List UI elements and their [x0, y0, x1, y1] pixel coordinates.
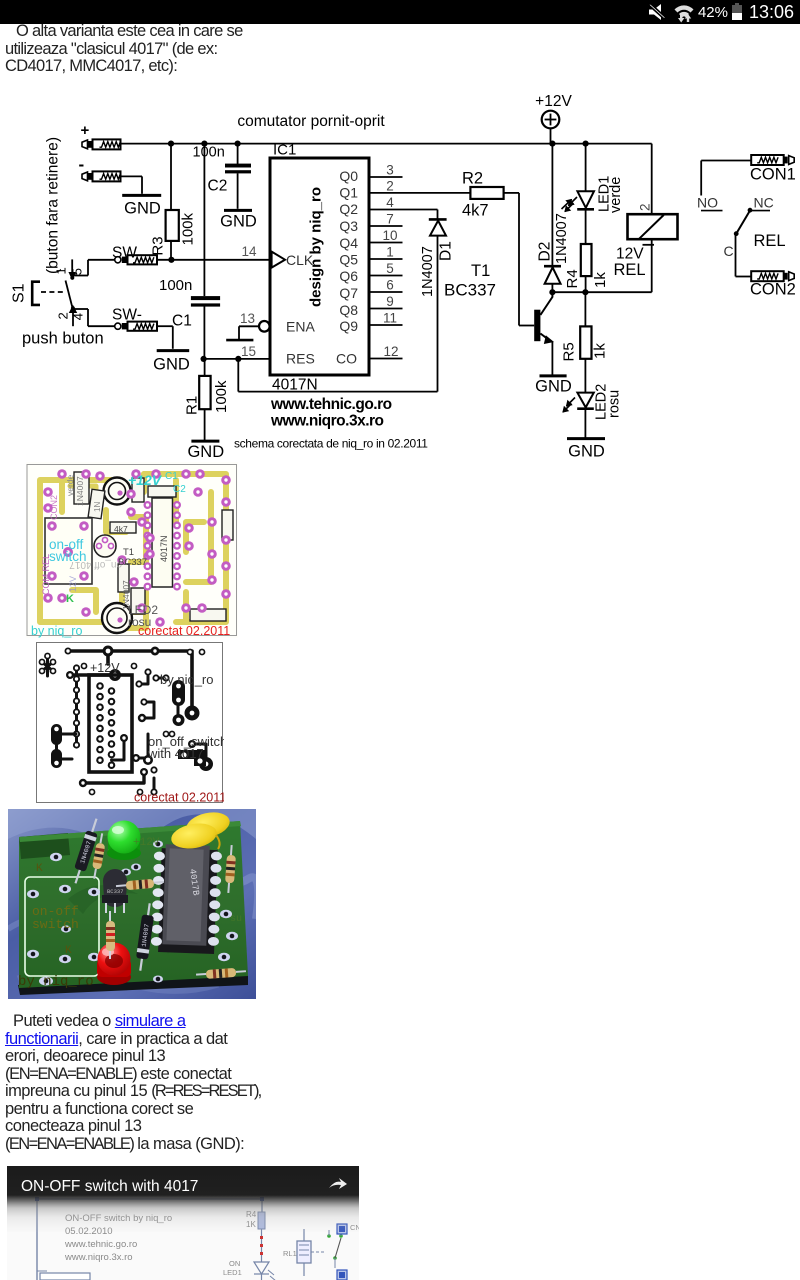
svg-text:100n: 100n	[159, 277, 192, 294]
svg-text:GND: GND	[187, 443, 224, 461]
svg-text:C: C	[724, 243, 734, 259]
svg-text:Q8: Q8	[339, 302, 358, 318]
svg-text:1: 1	[386, 245, 394, 260]
svg-text:D1: D1	[438, 241, 455, 261]
svg-text:(buton fara retinere): (buton fara retinere)	[45, 137, 62, 274]
svg-text:12V: 12V	[616, 246, 644, 263]
svg-text:R3: R3	[150, 236, 167, 255]
svg-text:CON2: CON2	[750, 281, 796, 299]
svg-text:4017N: 4017N	[159, 535, 169, 562]
svg-text:IC1: IC1	[273, 142, 296, 159]
svg-text:www.tehnic.go.ro: www.tehnic.go.ro	[270, 396, 392, 413]
svg-text:Q1: Q1	[339, 185, 358, 201]
svg-text:+12V: +12V	[128, 472, 163, 488]
svg-text:www.tehnic.go.ro: www.tehnic.go.ro	[64, 1239, 137, 1250]
svg-text:comutator pornit-oprit: comutator pornit-oprit	[237, 113, 385, 130]
svg-text:K: K	[66, 593, 74, 605]
svg-text:C2: C2	[173, 484, 186, 495]
svg-text:12: 12	[383, 344, 398, 359]
svg-text:by niq_ro: by niq_ro	[160, 672, 213, 687]
svg-text:R1: R1	[184, 396, 201, 415]
svg-text:CO: CO	[336, 350, 357, 366]
svg-text:3: 3	[386, 163, 394, 178]
svg-text:verde: verde	[608, 177, 624, 213]
svg-text:+12V: +12V	[90, 661, 120, 675]
svg-text:REL: REL	[754, 232, 786, 250]
svg-text:S1: S1	[11, 283, 28, 303]
svg-text:with 4017: with 4017	[147, 746, 204, 761]
svg-text:Q5: Q5	[339, 252, 358, 268]
svg-text:14: 14	[241, 244, 257, 259]
svg-text:ON-OFF switch with 4017: ON-OFF switch with 4017	[21, 1178, 198, 1195]
svg-text:Q9: Q9	[339, 318, 358, 334]
svg-text:by niq_ro: by niq_ro	[18, 974, 94, 990]
svg-text:13: 13	[240, 311, 255, 326]
svg-text:Q2: Q2	[339, 201, 358, 217]
svg-text:GND: GND	[220, 213, 257, 231]
svg-text:1N4007: 1N4007	[75, 476, 85, 506]
svg-text:Q4: Q4	[339, 235, 358, 251]
svg-text:on_off 4017: on_off 4017	[69, 559, 122, 570]
svg-text:1N4007: 1N4007	[554, 213, 570, 264]
svg-text:100n: 100n	[193, 145, 225, 161]
svg-text:GND: GND	[153, 356, 190, 374]
svg-text:-: -	[78, 155, 84, 174]
svg-text:R5: R5	[561, 342, 578, 361]
svg-text:D2: D2	[537, 242, 554, 262]
svg-text:CON2: CON2	[49, 495, 59, 520]
svg-text:4: 4	[71, 313, 86, 320]
svg-text:switch: switch	[32, 917, 79, 932]
svg-text:Q0: Q0	[339, 168, 358, 184]
svg-text:rosu: rosu	[128, 615, 151, 629]
svg-text:10: 10	[382, 228, 397, 243]
svg-text:4k7: 4k7	[114, 524, 128, 534]
svg-text:C2: C2	[208, 178, 228, 195]
svg-text:5: 5	[386, 261, 394, 276]
svg-text:+12V: +12V	[133, 837, 160, 849]
svg-text:schema corectata de niq_ro in: schema corectata de niq_ro in 02.2011	[234, 437, 428, 451]
svg-text:2: 2	[386, 179, 394, 194]
svg-text:push buton: push buton	[22, 330, 104, 348]
svg-text:rosu: rosu	[607, 390, 623, 418]
svg-text:C1: C1	[165, 471, 178, 482]
svg-text:GND: GND	[535, 378, 572, 396]
svg-text:R2: R2	[462, 170, 483, 188]
svg-text:7: 7	[386, 212, 394, 227]
svg-text:15: 15	[241, 344, 256, 359]
svg-text:12V: 12V	[68, 576, 78, 592]
svg-text:R4: R4	[564, 269, 581, 288]
svg-text:6: 6	[386, 278, 394, 293]
svg-text:Q6: Q6	[339, 268, 358, 284]
svg-text:BC337: BC337	[444, 281, 496, 300]
svg-text:1k: 1k	[592, 343, 609, 359]
svg-text:by niq_ro: by niq_ro	[31, 624, 82, 638]
svg-text:RL1: RL1	[283, 1249, 297, 1258]
svg-text:ENA: ENA	[286, 318, 315, 334]
svg-text:1k: 1k	[592, 272, 609, 288]
svg-text:+12V: +12V	[535, 93, 572, 110]
svg-text:100k: 100k	[213, 380, 230, 413]
svg-text:1: 1	[54, 267, 69, 274]
svg-text:www.niqro.3x.ro: www.niqro.3x.ro	[270, 413, 384, 430]
svg-text:100k: 100k	[180, 212, 197, 245]
svg-text:4: 4	[386, 195, 394, 210]
svg-text:CON1: CON1	[750, 166, 796, 184]
svg-text:2: 2	[638, 203, 653, 211]
svg-text:Q3: Q3	[339, 218, 358, 234]
svg-text:BC337: BC337	[118, 557, 147, 568]
svg-text:LED1: LED1	[223, 1268, 242, 1277]
svg-text:1N4007: 1N4007	[420, 246, 436, 297]
svg-text:GND: GND	[568, 443, 605, 461]
svg-text:BC337: BC337	[107, 888, 124, 895]
svg-text:4017N: 4017N	[272, 377, 318, 394]
svg-text:su: su	[230, 914, 242, 925]
svg-text:11: 11	[383, 311, 397, 326]
svg-text:RES: RES	[286, 350, 315, 366]
svg-text:2: 2	[56, 312, 71, 319]
svg-text:SW-: SW-	[112, 306, 142, 323]
svg-text:5: 5	[70, 268, 85, 275]
svg-text:design by niq_ro: design by niq_ro	[308, 187, 325, 307]
svg-text:NO: NO	[697, 195, 718, 211]
svg-text:T1: T1	[471, 262, 490, 280]
svg-text:corectat 02.2011: corectat 02.2011	[138, 624, 230, 638]
svg-text:corectat 02.2011: corectat 02.2011	[134, 791, 224, 805]
svg-text:verde: verde	[65, 474, 75, 496]
svg-text:+: +	[81, 122, 90, 139]
svg-text:9: 9	[386, 294, 394, 309]
svg-text:www.niqro.3x.ro: www.niqro.3x.ro	[64, 1252, 133, 1263]
svg-text:Q7: Q7	[339, 285, 358, 301]
svg-text:REL: REL	[614, 261, 646, 279]
svg-text:ON: ON	[229, 1259, 240, 1268]
svg-text:SW: SW	[112, 244, 137, 261]
svg-text:1N: 1N	[93, 502, 102, 512]
svg-text:COM.REL: COM.REL	[41, 554, 51, 595]
svg-text:4k7: 4k7	[462, 202, 489, 220]
svg-text:C1: C1	[172, 313, 192, 330]
svg-text:K: K	[36, 863, 43, 875]
svg-text:GND: GND	[124, 200, 161, 218]
svg-text:K: K	[65, 945, 72, 957]
svg-text:NC: NC	[754, 195, 774, 211]
